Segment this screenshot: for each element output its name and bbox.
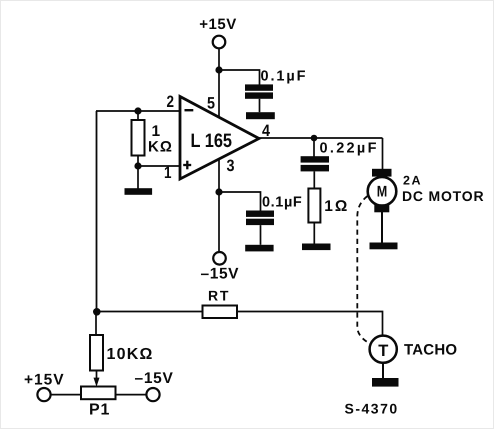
capacitor C3 0.22uF (301, 156, 329, 188)
wire R1 bottom to ground (137, 166, 139, 189)
value label 1 KOhm (148, 123, 173, 156)
resistor R1 1 KOhm (132, 111, 145, 166)
wire feedback to RT (96, 311, 203, 313)
svg-text:5: 5 (207, 94, 215, 112)
dashed mechanical coupling motor-tacho (357, 196, 371, 345)
svg-text:2: 2 (167, 93, 175, 111)
svg-text:DC MOTOR: DC MOTOR (402, 188, 484, 204)
svg-text:10KΩ: 10KΩ (107, 346, 154, 363)
junction pin3/C2 (215, 188, 222, 195)
tacho T (370, 336, 397, 379)
svg-text:M: M (377, 184, 388, 201)
wire inverting input (left horizontal) (96, 110, 180, 112)
svg-text:S-4370: S-4370 (345, 401, 399, 417)
junction R1 top (134, 107, 141, 114)
wire RT to tacho (237, 312, 383, 337)
svg-text:1: 1 (164, 164, 172, 182)
svg-text:1Ω: 1Ω (324, 198, 349, 215)
svg-text:0.22µF: 0.22µF (320, 140, 379, 156)
-15V terminal (P1 right) (146, 388, 159, 401)
svg-text:+15V: +15V (199, 16, 236, 33)
svg-text:–15V: –15V (201, 266, 240, 283)
wiper arrow to P1 (94, 378, 100, 387)
capacitor C1 0.1uF (supply decoupling, top) (245, 84, 273, 112)
wire +15V terminal to op-amp pin 5 (218, 48, 220, 117)
+15V terminal (P1 left) (37, 388, 50, 401)
svg-text:KΩ: KΩ (148, 139, 173, 156)
ground (below R2) (302, 244, 331, 251)
svg-text:RT: RT (208, 288, 230, 304)
wire junction to C1 (219, 70, 260, 85)
svg-text:–15V: –15V (135, 370, 174, 387)
ground (below motor) (370, 243, 398, 250)
ground (below C1) (246, 112, 275, 119)
svg-text:2A: 2A (403, 174, 422, 188)
ground (below tacho) (372, 378, 399, 387)
wire output to motor (382, 138, 384, 170)
ground (below R1) (125, 188, 153, 195)
wire feedback node to R3 (95, 312, 97, 336)
svg-text:3: 3 (227, 157, 235, 175)
resistor RT (203, 306, 238, 319)
wire junction to C3 (313, 138, 315, 157)
resistor R3 10 KOhm (90, 335, 103, 379)
wire non-inverting input (138, 165, 180, 167)
ground (below C2) (245, 245, 273, 252)
op-amp U1 L 165 (180, 97, 259, 180)
motor M (DC motor) (368, 169, 397, 243)
wire left feedback vertical (96, 111, 98, 312)
wire op-amp output (258, 137, 383, 139)
capacitor C2 0.1uF (supply decoupling, bottom) (246, 211, 274, 245)
svg-text:P1: P1 (89, 402, 110, 419)
junction R1 bottom (134, 162, 141, 169)
resistor R2 1 Ohm (308, 189, 320, 244)
-15V terminal (213, 252, 226, 265)
wire junction to C2 (219, 192, 261, 211)
wire P1 left (51, 394, 81, 396)
junction supply/C1 (215, 66, 222, 73)
junction feedback node (93, 308, 101, 316)
wire op-amp pin 3 down to -15V (218, 159, 220, 252)
junction output/C3 (311, 135, 318, 142)
svg-text:1: 1 (152, 123, 161, 140)
svg-text:T: T (378, 342, 388, 360)
svg-text:TACHO: TACHO (404, 342, 457, 359)
svg-text:0.1µF: 0.1µF (261, 69, 308, 85)
svg-text:+15V: +15V (24, 372, 65, 389)
wire P1 right (116, 394, 147, 396)
+15V terminal (213, 36, 226, 49)
svg-text:L 165: L 165 (191, 130, 233, 152)
svg-text:0.1µF: 0.1µF (262, 195, 302, 211)
potentiometer P1 (81, 387, 116, 400)
